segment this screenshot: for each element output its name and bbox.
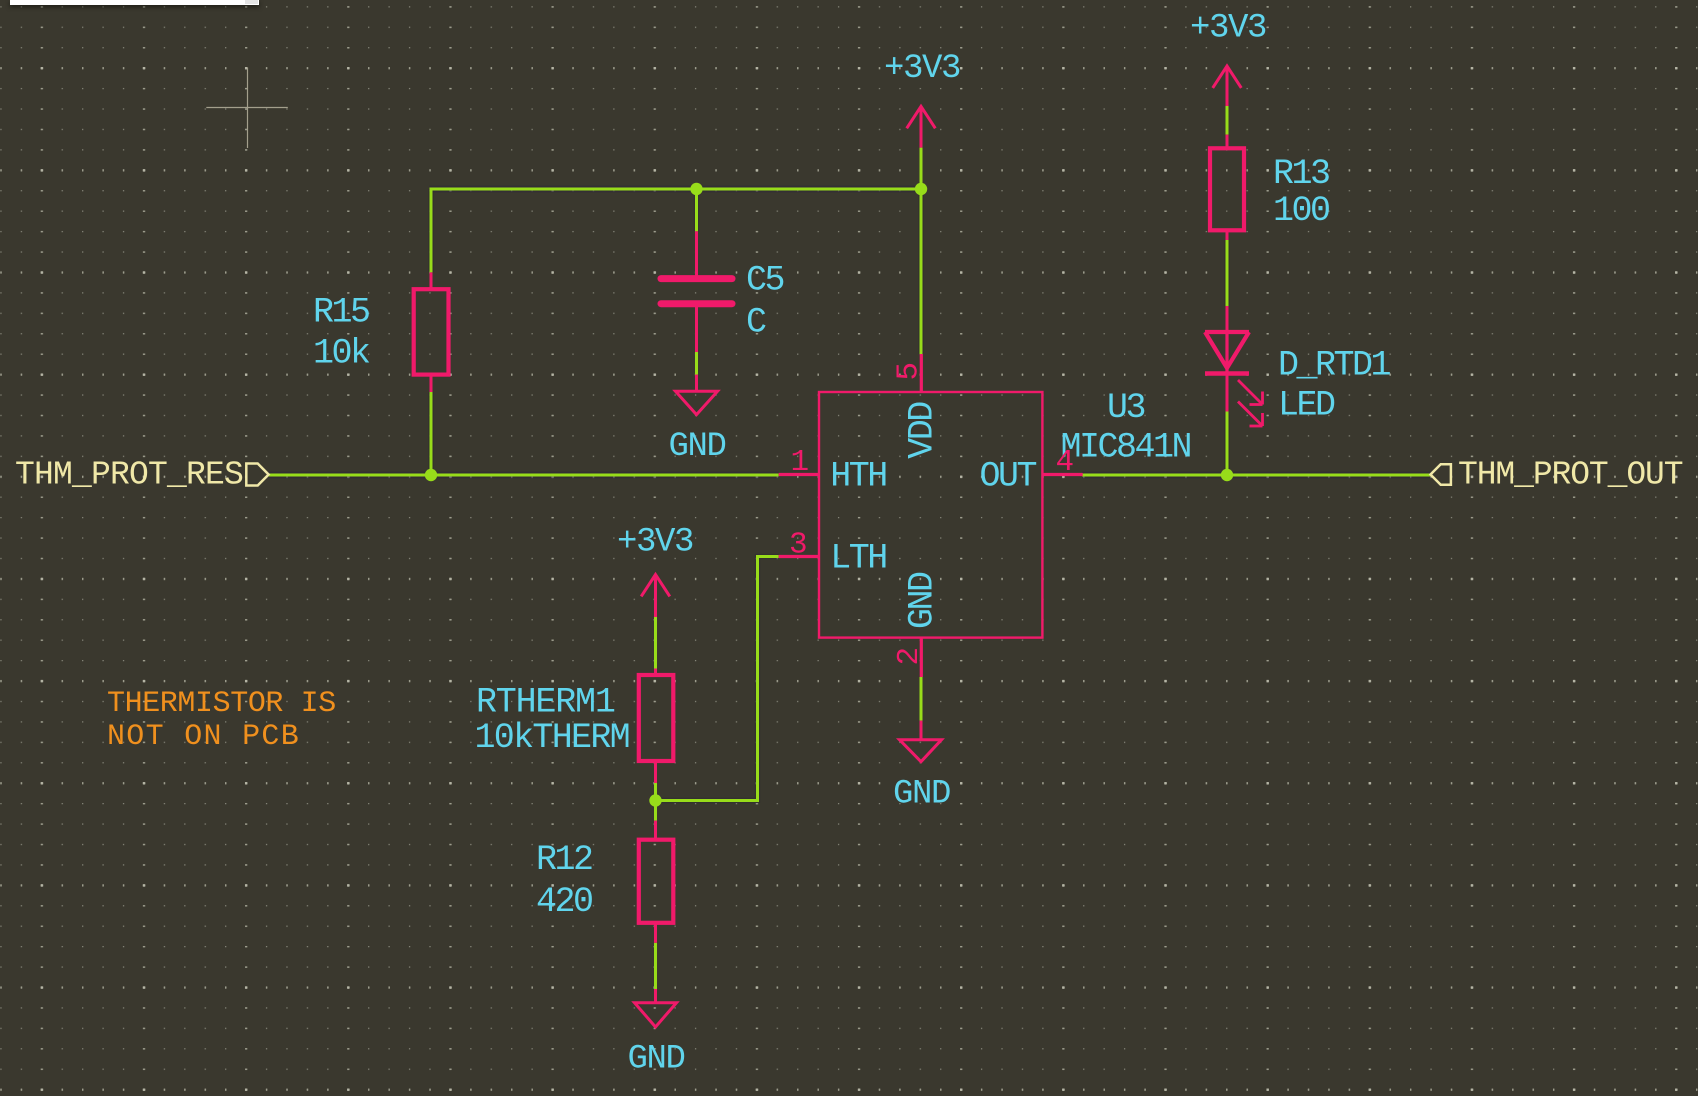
- svg-text:VDD: VDD: [903, 402, 943, 459]
- svg-text:R15: R15: [313, 292, 369, 332]
- svg-text:LTH: LTH: [830, 539, 886, 579]
- svg-text:420: 420: [536, 882, 592, 922]
- svg-text:2: 2: [892, 647, 927, 666]
- svg-text:THERMISTOR IS: THERMISTOR IS: [107, 687, 336, 721]
- svg-text:+3V3: +3V3: [1190, 9, 1266, 47]
- svg-text:5: 5: [892, 362, 927, 381]
- svg-text:MIC841N: MIC841N: [1061, 428, 1191, 468]
- svg-text:+3V3: +3V3: [617, 524, 693, 562]
- svg-text:GND: GND: [893, 775, 950, 813]
- svg-text:R12: R12: [536, 840, 592, 880]
- svg-text:THM_PROT_OUT: THM_PROT_OUT: [1458, 457, 1683, 494]
- svg-text:4: 4: [1056, 445, 1075, 480]
- svg-text:C5: C5: [746, 261, 784, 301]
- svg-text:1: 1: [791, 445, 810, 480]
- svg-text:C: C: [746, 303, 766, 343]
- svg-text:OUT: OUT: [980, 457, 1037, 497]
- svg-text:3: 3: [789, 528, 808, 563]
- svg-text:GND: GND: [628, 1041, 685, 1079]
- svg-text:10k: 10k: [313, 334, 370, 374]
- svg-text:LED: LED: [1278, 386, 1335, 426]
- svg-text:U3: U3: [1107, 388, 1145, 428]
- svg-text:RTHERM1: RTHERM1: [476, 683, 615, 723]
- svg-text:D_RTD1: D_RTD1: [1278, 346, 1391, 386]
- svg-text:+3V3: +3V3: [884, 50, 960, 88]
- svg-text:NOT ON PCB: NOT ON PCB: [107, 720, 300, 754]
- svg-text:HTH: HTH: [830, 457, 886, 497]
- svg-text:GND: GND: [669, 428, 726, 466]
- svg-text:100: 100: [1273, 191, 1329, 231]
- svg-text:10kTHERM: 10kTHERM: [475, 718, 629, 758]
- svg-text:GND: GND: [903, 572, 943, 629]
- svg-text:R13: R13: [1273, 154, 1329, 194]
- svg-text:THM_PROT_RES: THM_PROT_RES: [15, 457, 243, 494]
